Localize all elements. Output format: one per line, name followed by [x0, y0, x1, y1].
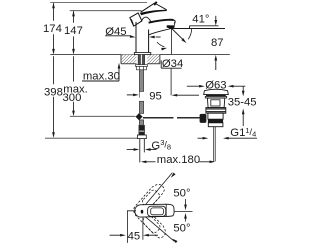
- lever tip spike: [154, 1, 158, 5]
- dashed handle rotated down: [132, 203, 168, 241]
- vertical ext from Ø34 box to 95 dim: [170, 68, 172, 95]
- cap rim: [205, 97, 226, 99]
- G3/8 nut: [137, 135, 146, 139]
- drain upper body: [207, 98, 224, 108]
- deck outline: [120, 55, 122, 64]
- deck cross-section left part: [121, 55, 136, 64]
- G1 1/4 dimension: [198, 137, 203, 139]
- lever blade top edge: [141, 3, 156, 13]
- spout nose: [173, 20, 175, 24]
- handle paddle: [130, 13, 142, 26]
- spout bottom edge: [149, 28, 175, 35]
- cartridge dome: [141, 17, 151, 22]
- spout top thick edge: [149, 20, 174, 23]
- overflow window: [211, 100, 220, 106]
- faucet body: [135, 22, 137, 53]
- 398 bottom ref line: [45, 137, 137, 139]
- hose gap edge line: [138, 91, 140, 97]
- braided hose segment 1: [139, 70, 143, 92]
- 41° horizontal arm: [172, 28, 225, 30]
- ref line T2 (147 top): [70, 10, 142, 12]
- left leader corner to handle: [127, 211, 136, 243]
- svg-text:max.180: max.180: [157, 154, 200, 166]
- tip separation line: [165, 204, 167, 216]
- G3/8 arrows: [127, 149, 134, 151]
- lever blade dark bottom sweep: [140, 10, 167, 15]
- 35-45 dimension: [242, 86, 244, 92]
- tail rod lines: [213, 127, 215, 162]
- recess outer: [148, 206, 166, 216]
- pivot dot: [141, 210, 144, 214]
- 41° vertical drop to deck: [170, 28, 172, 54]
- max.180 dimension: [141, 160, 147, 163]
- handle axis line: [174, 211, 192, 213]
- svg-text:95: 95: [149, 91, 162, 103]
- 45 dim ext line B: [142, 218, 144, 240]
- 41° label line and jog: [190, 25, 219, 27]
- svg-text:50°: 50°: [173, 222, 190, 234]
- 45 dimension: [110, 234, 121, 236]
- svg-text:45: 45: [128, 230, 141, 242]
- dashed handle rotated up: [131, 181, 167, 219]
- pull rod knob: [200, 114, 207, 123]
- svg-text:398: 398: [44, 87, 63, 99]
- Ø45 right arrow: [156, 36, 161, 38]
- braided hose segment 2: [139, 101, 143, 113]
- lower body: [208, 113, 223, 119]
- recess inner: [151, 208, 164, 215]
- threaded shank: [138, 55, 144, 65]
- dimension 87 top arrow: [215, 16, 217, 21]
- svg-text:50°: 50°: [173, 187, 190, 199]
- spout aerator dark tip: [167, 25, 175, 29]
- dimension 147/max300 vertical line: [73, 11, 75, 112]
- hose end fitting: [139, 125, 145, 130]
- ext lines below hose nut: [139, 139, 141, 163]
- 41° inclined arm with end arrow: [172, 29, 183, 40]
- dimension 87 bottom arrow: [215, 59, 217, 70]
- svg-text:Ø63: Ø63: [205, 79, 226, 91]
- svg-text:87: 87: [211, 37, 224, 49]
- pop-up horizontal rod: [143, 117, 174, 119]
- lever blade right edge: [156, 4, 167, 10]
- dimension 174/398 vertical line: [53, 3, 55, 133]
- ref line top T1 (174 top): [50, 2, 147, 4]
- base plate: [134, 53, 151, 55]
- svg-text:147: 147: [64, 25, 83, 37]
- pop-up rod junction: [136, 113, 143, 120]
- 41° arc near deck with arrow: [157, 42, 165, 47]
- solid handle top view: [135, 204, 174, 217]
- locknut: [206, 108, 226, 114]
- 50° bottom leader: [185, 217, 187, 221]
- svg-text:35-45: 35-45: [228, 97, 257, 109]
- dimension 95: [127, 94, 134, 96]
- 41° arc horizontal-to-incline: [188, 29, 192, 40]
- tail box: [208, 123, 223, 127]
- svg-text:41°: 41°: [192, 14, 209, 26]
- svg-text:174: 174: [43, 23, 62, 35]
- 50° top leader: [185, 199, 187, 206]
- max300 bottom ref line: [70, 115, 135, 117]
- spout tip face: [174, 22, 176, 25]
- deck reference line extended: [50, 54, 230, 56]
- 50° sector boundary line up: [140, 173, 173, 212]
- washer: [135, 65, 147, 67]
- mounting nut: [136, 66, 146, 69]
- svg-text:300: 300: [63, 92, 82, 104]
- 50° sector boundary line down: [140, 212, 175, 242]
- Ø63 dimension: [187, 85, 200, 87]
- deck cross-section right part: [147, 55, 160, 64]
- shadow under cap: [206, 95, 226, 96]
- drain cap dome: [204, 89, 229, 94]
- braided hose segment 3: [139, 120, 143, 126]
